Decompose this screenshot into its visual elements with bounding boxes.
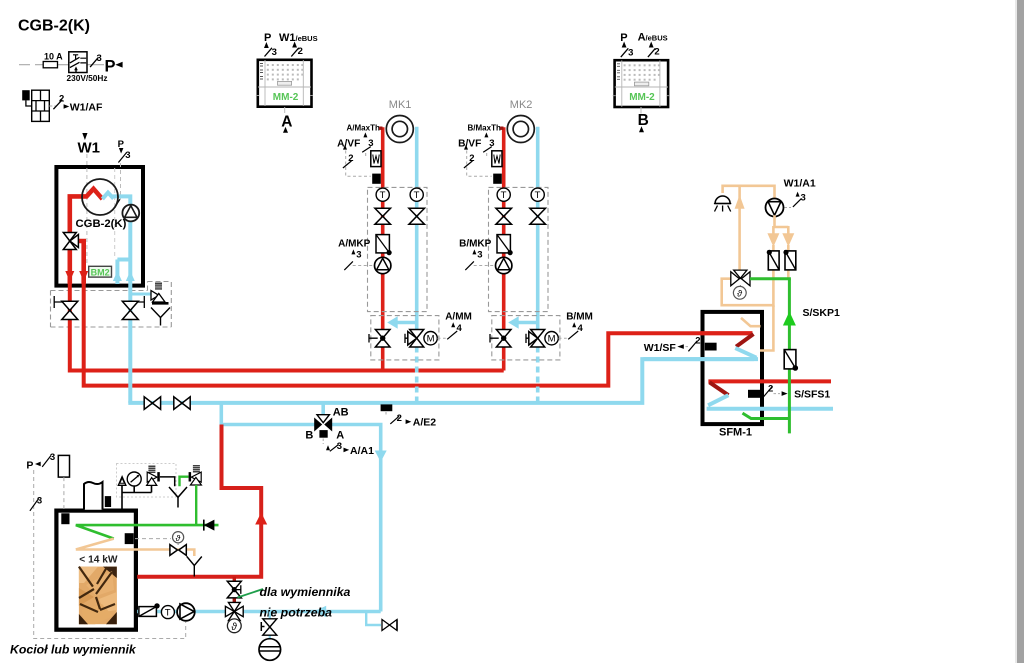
svg-text:3: 3 [368, 138, 373, 149]
thermostat box [58, 455, 69, 477]
svg-text:MM-2: MM-2 [629, 92, 655, 103]
wire dashed P to pump [34, 470, 186, 639]
mains switch box 230V/50Hz [69, 52, 87, 73]
cyan pipe boiler return drop [128, 284, 132, 403]
orange check arrow left [767, 233, 779, 247]
MK1 mixer motor M [424, 332, 446, 345]
svg-text:T: T [414, 190, 420, 201]
module MM-2 no.1 node A [281, 113, 292, 133]
svg-text:A/MaxTh: A/MaxTh [347, 123, 380, 132]
green coil pipe [76, 525, 219, 539]
MK1 dashed box pump group [368, 187, 428, 311]
module MM-2 no.2 label P 3 [620, 32, 633, 58]
svg-text:W1/SF: W1/SF [644, 342, 677, 354]
svg-text:A: A [336, 430, 344, 442]
dashed box boiler valves [51, 282, 172, 328]
chimney damper box [105, 496, 111, 507]
svg-text:2: 2 [654, 46, 659, 57]
drain branch [366, 612, 381, 626]
orange pipe to mixer [738, 186, 741, 270]
red pipe main flow 2 to tank [84, 284, 753, 386]
svg-text:B/MKP: B/MKP [459, 238, 492, 249]
module MM-2 no.2 node B [638, 112, 649, 133]
boiler cyan arrow up left [113, 271, 122, 281]
svg-text:B/MM: B/MM [566, 311, 593, 322]
green pointer line [238, 589, 264, 598]
MK2 cyan return pipe [536, 127, 540, 331]
red arrow up riser [255, 513, 267, 525]
MK1 gate valve return [409, 208, 425, 224]
svg-text:A/VF: A/VF [337, 138, 360, 149]
MK2 gate valve flow [496, 208, 512, 224]
shutoff valve return main 2 [174, 397, 190, 410]
fill valve [261, 619, 277, 635]
orange dip tube hook [741, 318, 761, 326]
svg-text:T: T [165, 608, 171, 619]
svg-text:A/MKP: A/MKP [338, 238, 371, 249]
green pipe S/SKP riser [788, 279, 791, 434]
cyan pipe AB valve top port [321, 403, 325, 417]
black pipe boiler top [122, 486, 152, 510]
svg-text:3: 3 [628, 47, 633, 58]
svg-text:B/MaxTh: B/MaxTh [468, 123, 501, 132]
pressure gauge [127, 472, 141, 486]
svg-text:SFM-1: SFM-1 [719, 427, 752, 439]
boiler CGB-2(K) red pipe below valve [68, 250, 73, 285]
MK2 dashed box mixer group [492, 316, 560, 360]
cyan branch pipe to AB valve [221, 401, 316, 425]
MK1 shutoff valve with dot [369, 330, 390, 348]
MK2 thermometer flow [497, 188, 510, 201]
orange coil pipe [76, 539, 195, 556]
MK2 radiator circle [507, 116, 534, 143]
flow limiter DHW left [767, 250, 779, 270]
svg-text:CGB-2(K): CGB-2(K) [18, 18, 90, 35]
svg-text:2: 2 [768, 384, 773, 395]
MK2 dashed box pump group [489, 187, 549, 311]
outdoor sensor W1/AF black box [22, 90, 30, 100]
cyan arrow left on return [314, 606, 326, 618]
MK1 label A/MKP 3 [338, 238, 373, 270]
tank coil cyan lower [707, 395, 833, 409]
red pipe from wood boiler riser [137, 425, 261, 579]
svg-text:ϑ: ϑ [176, 533, 181, 543]
orange pipe cold water loop [722, 279, 774, 351]
MK1 thermometer flow [376, 188, 389, 201]
thermometer wood return [161, 606, 174, 619]
module MM-2 no.2 box [613, 60, 670, 107]
svg-text:3: 3 [125, 150, 130, 161]
pump wood boiler [177, 603, 195, 621]
air vent [118, 477, 126, 486]
MK2 pump B/MKP [496, 257, 512, 273]
module MM-2 no.2 label A/eBUS 2 [638, 32, 668, 58]
safety valve wood 2 on green [189, 466, 202, 485]
svg-text:2: 2 [695, 336, 700, 347]
firewood picture [79, 567, 117, 625]
orange pipe DHW top [723, 186, 775, 199]
cyan arrow down [375, 451, 387, 463]
svg-text:MM-2: MM-2 [273, 92, 299, 103]
shutoff valve with dot red branch [227, 581, 241, 598]
svg-text:T: T [380, 190, 386, 201]
pointer 3 on wire [30, 496, 42, 511]
MK2 shutoff valve with dot [490, 330, 511, 348]
module MM-2 no.1 label W1/eBUS 2 [279, 32, 318, 57]
svg-text:4: 4 [578, 323, 584, 334]
pointer slash to pump [115, 199, 120, 207]
green arrow S/SKP [783, 312, 796, 326]
safety valve boiler [151, 283, 169, 303]
boiler casing box [56, 167, 143, 286]
MK1 dashed box mixer group [371, 316, 439, 360]
svg-text:T: T [535, 190, 541, 201]
MK2 flow limiter [497, 235, 513, 256]
svg-text:S/SFS1: S/SFS1 [794, 389, 830, 401]
theta circle wood mixer [227, 619, 241, 633]
MK2 flow sensor well [492, 151, 502, 167]
MK1 label A/MaxTh [347, 123, 383, 137]
orange pipe pump split [773, 215, 788, 235]
sensor A/E2 [381, 404, 393, 411]
svg-text:ϑ: ϑ [231, 622, 237, 633]
boiler pump circle [122, 205, 139, 222]
label A/E2 2 [386, 412, 436, 429]
funnel orange [187, 557, 202, 577]
MK1 red flow pipe [381, 127, 385, 370]
scrollbar thumb [1017, 0, 1024, 663]
module MM-2 no.2 terminal grid [624, 64, 660, 80]
MK2 label B/MM 4 [566, 311, 593, 339]
gate valve boiler flow [54, 296, 78, 320]
storage tank SFM-1 box [703, 312, 763, 424]
MK1 thermometer return [410, 188, 423, 201]
svg-text:dla wymiennika: dla wymiennika [260, 585, 351, 599]
red pipe main flow 1 [70, 284, 504, 371]
svg-text:P: P [26, 459, 33, 471]
label A/A1 3 [323, 439, 374, 457]
MK1 wire dashed to sensors [346, 151, 371, 177]
thermostatic valve on orange [170, 545, 186, 556]
label P 3 wood boiler [26, 452, 55, 471]
diverting valve AB [314, 415, 332, 432]
MK1 cyan return dashed crossing [415, 347, 419, 403]
svg-text:MK2: MK2 [510, 99, 533, 111]
wire dashed P3 to boiler pump [120, 163, 122, 199]
balancing valve wood return [139, 603, 160, 616]
MK2 cyan arrow to mixer [508, 316, 538, 328]
fill valve branch [269, 612, 271, 640]
MK1 max thermostat contact [372, 174, 381, 184]
svg-text:AB: AB [333, 406, 349, 418]
theta circle orange valve [173, 532, 184, 545]
gate valve boiler return [122, 296, 144, 320]
module MM-2 no.2 left terminal dashes [617, 64, 620, 80]
wire dashed W1 into boiler [86, 154, 88, 265]
mixer theta circle [733, 285, 746, 299]
MK1 mixing valve A/MM [405, 330, 424, 348]
valve AB motor square [319, 430, 327, 438]
cyan stub to safety valve [130, 293, 152, 296]
svg-text:3: 3 [50, 452, 55, 463]
svg-text:M: M [548, 334, 556, 345]
svg-text:A/E2: A/E2 [413, 417, 437, 429]
boiler cyan pipe through pump [117, 205, 130, 284]
shutoff valve return main 1 [144, 397, 160, 410]
boiler red arrow down right [79, 271, 88, 282]
MK2 red flow pipe [502, 127, 506, 370]
mixing valve wood return [225, 602, 243, 620]
outdoor sensor wall bricks [32, 90, 50, 121]
mains switch arrow [74, 66, 78, 72]
MK2 max thermostat contact [493, 174, 502, 184]
chimney [84, 482, 103, 510]
green pipe mixer to riser [750, 277, 791, 280]
MK2 wire dashed to sensors [467, 151, 492, 177]
MK2 label B/MKP 3 [459, 238, 494, 270]
module MM-2 no.1 terminal grid [267, 64, 304, 80]
tank coil green bottom [743, 413, 790, 418]
svg-text:S/SKP1: S/SKP1 [803, 307, 841, 319]
label W1/A1 3 [784, 178, 816, 208]
svg-text:M: M [427, 334, 435, 345]
label W1 above boiler [78, 133, 101, 156]
svg-text:Kocioł lub wymiennik: Kocioł lub wymiennik [10, 643, 137, 657]
MK2 mixing valve B/MM [526, 330, 545, 348]
flow limiter DHW right [783, 250, 795, 270]
svg-text:< 14 kW: < 14 kW [79, 554, 118, 565]
pointer 3 to P [90, 53, 102, 67]
dark red stub [233, 599, 236, 605]
shower head [714, 196, 731, 211]
orange check arrow right [782, 233, 794, 247]
sensor W1/SF [705, 343, 717, 351]
module MM-2 no.1 label P 3 [264, 32, 277, 58]
label P with left arrow [105, 58, 123, 76]
svg-text:4: 4 [457, 323, 463, 334]
MK1 flow limiter [376, 235, 392, 256]
check valve on green [204, 520, 215, 531]
MK2 mixer motor M [545, 332, 567, 345]
svg-text:W1/A1: W1/A1 [784, 178, 816, 190]
sensor wire hook [26, 100, 32, 106]
svg-text:W1: W1 [78, 139, 101, 156]
boiler cyan arrow up right [126, 271, 135, 281]
svg-text:W1/eBUS: W1/eBUS [279, 32, 318, 44]
boiler cyan return zigzag [102, 193, 130, 205]
tank coil red upper [700, 331, 752, 335]
orange arrow up [735, 195, 745, 209]
svg-text:3: 3 [337, 441, 342, 452]
svg-text:B/VF: B/VF [458, 138, 481, 149]
module BM2 [89, 266, 112, 277]
module MM-2 no.1 box [256, 60, 313, 107]
green pipe safety to coil [195, 485, 197, 526]
wire dashed thermostat [63, 477, 65, 509]
funnel safety 1 [169, 487, 187, 508]
MK1 label A/VF 3 2 [337, 138, 373, 168]
wire dashed to label [49, 105, 56, 107]
boiler 3-way valve [63, 233, 78, 250]
module MM-2 no.1 left terminal dashes [260, 64, 263, 80]
svg-text:P: P [264, 32, 271, 44]
svg-text:MK1: MK1 [389, 99, 412, 111]
label W1/SF 2 [644, 336, 701, 354]
label S/SFS1 2 [764, 384, 831, 401]
svg-text:2: 2 [59, 94, 64, 105]
MK2 label B/MaxTh [468, 123, 504, 137]
MK1 label A/MM 4 [445, 311, 472, 339]
boiler CGB-2(K) red branch pipe [76, 241, 84, 284]
MK1 flow sensor well [371, 151, 381, 167]
svg-text:B: B [638, 112, 649, 129]
svg-text:3: 3 [356, 250, 361, 261]
safety valve wood 1 [147, 466, 175, 486]
svg-text:B: B [305, 430, 313, 442]
svg-text:3: 3 [272, 47, 277, 58]
boiler heat exchanger circle [82, 179, 118, 215]
thermostatic mixer DHW [731, 270, 750, 286]
svg-text:2: 2 [469, 153, 474, 164]
svg-text:3: 3 [489, 138, 494, 149]
module MM-2 no.1 wire to A [284, 107, 286, 113]
svg-text:3: 3 [477, 250, 482, 261]
MK1 gate valve flow [375, 208, 391, 224]
MK1 cyan return pipe [415, 127, 419, 331]
funnel below safety valve [151, 308, 170, 326]
svg-text:3: 3 [801, 193, 806, 204]
svg-text:3: 3 [97, 53, 102, 64]
MK2 cyan return dashed crossing [536, 347, 540, 403]
cyan pipe AB valve A port [331, 425, 381, 612]
svg-text:P: P [105, 58, 116, 76]
water meter circle [259, 639, 281, 661]
pump W1/A1 [766, 199, 784, 217]
svg-text:T: T [501, 190, 507, 201]
svg-text:230V/50Hz: 230V/50Hz [67, 73, 108, 83]
svg-text:3: 3 [37, 496, 42, 507]
flow limiter on green [784, 350, 798, 371]
scrollbar track [1015, 0, 1017, 663]
cyan pipe wood boiler return [137, 610, 381, 614]
boiler CGB-2(K) red flow pipe [70, 189, 103, 232]
boiler sensor square top left [61, 513, 69, 524]
svg-text:A/MM: A/MM [445, 311, 472, 322]
red stub at junction [233, 577, 236, 582]
tank coil red lower [708, 379, 831, 383]
MK2 label B/VF 3 2 [458, 138, 494, 168]
tank coil cyan upper [643, 348, 758, 359]
svg-text:2: 2 [298, 46, 303, 57]
wire mains power dashed line [19, 64, 104, 66]
wire dashed sensor to theta [135, 538, 171, 540]
label P 3 above boiler [118, 139, 131, 163]
svg-text:W1/AF: W1/AF [70, 101, 103, 113]
svg-text:A: A [281, 113, 292, 130]
wood boiler casing [56, 511, 135, 630]
cyan pipe main return [128, 359, 754, 403]
svg-text:2: 2 [348, 153, 353, 164]
MK2 thermometer return [531, 188, 544, 201]
boiler red arrow down left [65, 271, 74, 282]
svg-text:10 A: 10 A [44, 52, 63, 62]
MK2 gate valve return [530, 208, 546, 224]
wire dashed inside boiler [114, 168, 116, 258]
drain valve small [382, 620, 397, 631]
MK1 radiator circle [386, 116, 413, 143]
boiler sensor square right [125, 533, 134, 544]
module MM-2 no.2 wire to B [640, 107, 642, 114]
svg-text:A/eBUS: A/eBUS [638, 32, 668, 44]
orange stubs to limiters [773, 245, 788, 307]
svg-text:BM2: BM2 [91, 267, 110, 277]
svg-text:CGB-2(K): CGB-2(K) [76, 218, 127, 230]
pointer 2 W1/AF [53, 94, 103, 114]
green elbow at safety 2 [180, 477, 189, 487]
svg-text:A/A1: A/A1 [350, 445, 374, 457]
MK1 pump A/MKP [375, 257, 391, 273]
sensor S/SFS1 [748, 390, 762, 398]
dotted box expansion group [117, 464, 177, 498]
fuse 10 A [43, 52, 63, 68]
MK1 cyan arrow to mixer [387, 316, 417, 328]
